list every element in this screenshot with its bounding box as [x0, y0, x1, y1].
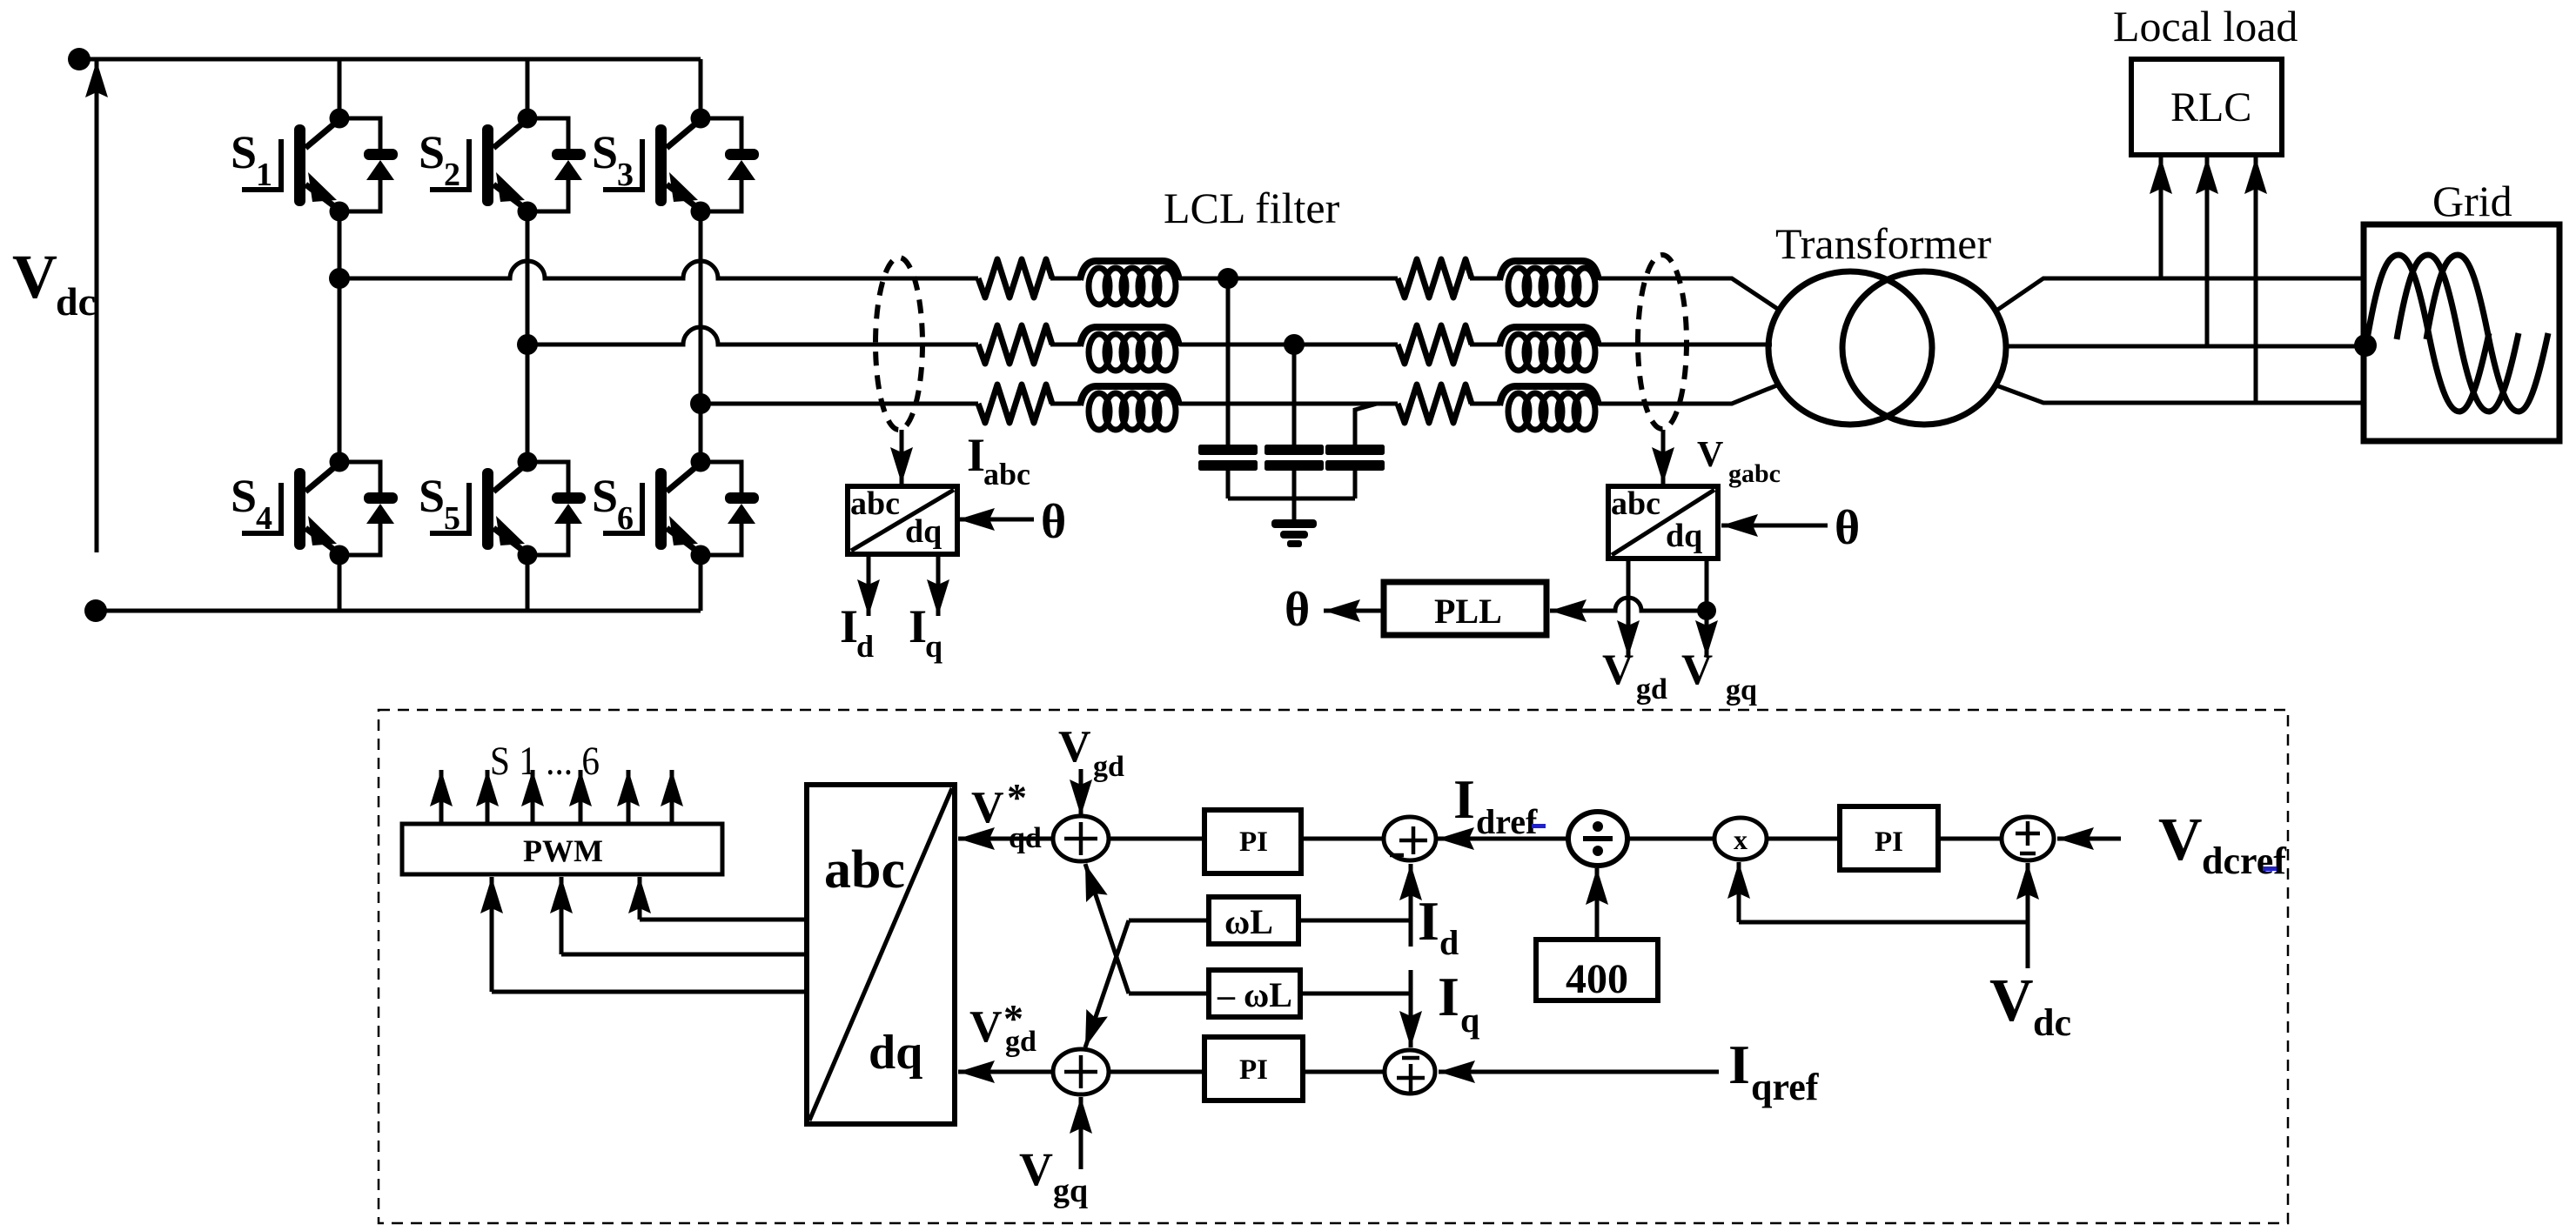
svg-text:gabc: gabc	[1728, 459, 1781, 488]
svg-text:V: V	[1681, 645, 1713, 693]
svg-text:PI: PI	[1875, 826, 1903, 858]
svg-text:abc: abc	[1611, 485, 1660, 522]
svg-text:RLC: RLC	[2170, 84, 2251, 130]
svg-text:q: q	[925, 629, 943, 664]
svg-text:abc: abc	[850, 485, 900, 522]
svg-text:PI: PI	[1239, 1054, 1268, 1086]
svg-text:V: V	[969, 1002, 1003, 1052]
svg-text:I: I	[1418, 890, 1439, 952]
svg-text:6: 6	[617, 500, 634, 537]
svg-text:Local load: Local load	[2113, 2, 2298, 50]
svg-text:I: I	[1728, 1034, 1750, 1095]
svg-text:V: V	[2158, 806, 2203, 873]
svg-text:PWM: PWM	[523, 833, 603, 868]
svg-text:V: V	[1989, 967, 2034, 1034]
svg-text:gd: gd	[1093, 751, 1124, 783]
svg-text:d: d	[856, 629, 874, 664]
svg-text:S: S	[231, 470, 257, 522]
svg-text:abc: abc	[983, 457, 1030, 492]
svg-text:3: 3	[617, 157, 634, 193]
svg-text:I: I	[909, 600, 927, 652]
svg-text:abc: abc	[824, 840, 905, 900]
svg-text:LCL filter: LCL filter	[1164, 184, 1340, 232]
svg-text:x: x	[1734, 824, 1748, 855]
svg-text:qref: qref	[1751, 1066, 1820, 1108]
svg-text:I: I	[840, 600, 858, 652]
svg-text:5: 5	[444, 500, 460, 537]
svg-text:V: V	[12, 242, 57, 311]
svg-text:400: 400	[1566, 956, 1628, 1002]
svg-text:V: V	[1019, 1143, 1053, 1195]
svg-text:S: S	[419, 126, 445, 178]
svg-text:V: V	[1602, 645, 1633, 693]
svg-text:θ: θ	[1041, 495, 1066, 549]
svg-text:θ: θ	[1835, 501, 1860, 555]
svg-text:V: V	[1697, 435, 1723, 475]
svg-text:PI: PI	[1239, 826, 1268, 858]
svg-text:I: I	[967, 429, 985, 481]
svg-text:Grid: Grid	[2432, 177, 2512, 225]
svg-text:S: S	[231, 126, 257, 178]
svg-text:S: S	[419, 470, 445, 522]
svg-text:dc: dc	[56, 279, 96, 324]
svg-text:V: V	[1058, 722, 1091, 772]
svg-text:dcref: dcref	[2202, 840, 2287, 882]
svg-text:S 1 ... 6: S 1 ... 6	[490, 739, 600, 784]
svg-text:q: q	[1460, 1000, 1479, 1040]
svg-text:S: S	[592, 470, 618, 522]
svg-text:d: d	[1439, 923, 1459, 962]
svg-text:2: 2	[444, 157, 460, 193]
svg-text:S: S	[592, 126, 618, 178]
svg-text:– ωL: – ωL	[1217, 975, 1292, 1014]
svg-text:dq: dq	[1666, 518, 1702, 554]
svg-text:I: I	[1453, 768, 1475, 830]
svg-text:dq: dq	[905, 513, 942, 550]
svg-text:V: V	[971, 783, 1004, 833]
svg-text:gd: gd	[1005, 1026, 1036, 1058]
svg-text:PLL: PLL	[1434, 592, 1502, 631]
svg-text:gq: gq	[1053, 1173, 1088, 1209]
svg-text:dc: dc	[2033, 1001, 2071, 1044]
svg-text:*: *	[1007, 775, 1027, 820]
svg-text:dq: dq	[869, 1026, 922, 1080]
svg-text:gd: gd	[1636, 673, 1667, 706]
svg-text:dref: dref	[1476, 802, 1538, 841]
svg-text:θ: θ	[1285, 583, 1310, 637]
svg-text:I: I	[1438, 966, 1459, 1027]
svg-text:1: 1	[256, 157, 272, 193]
svg-text:4: 4	[256, 500, 272, 537]
svg-text:ωL: ωL	[1224, 902, 1273, 941]
svg-text:Transformer: Transformer	[1775, 219, 1991, 268]
svg-text:gq: gq	[1726, 674, 1757, 706]
